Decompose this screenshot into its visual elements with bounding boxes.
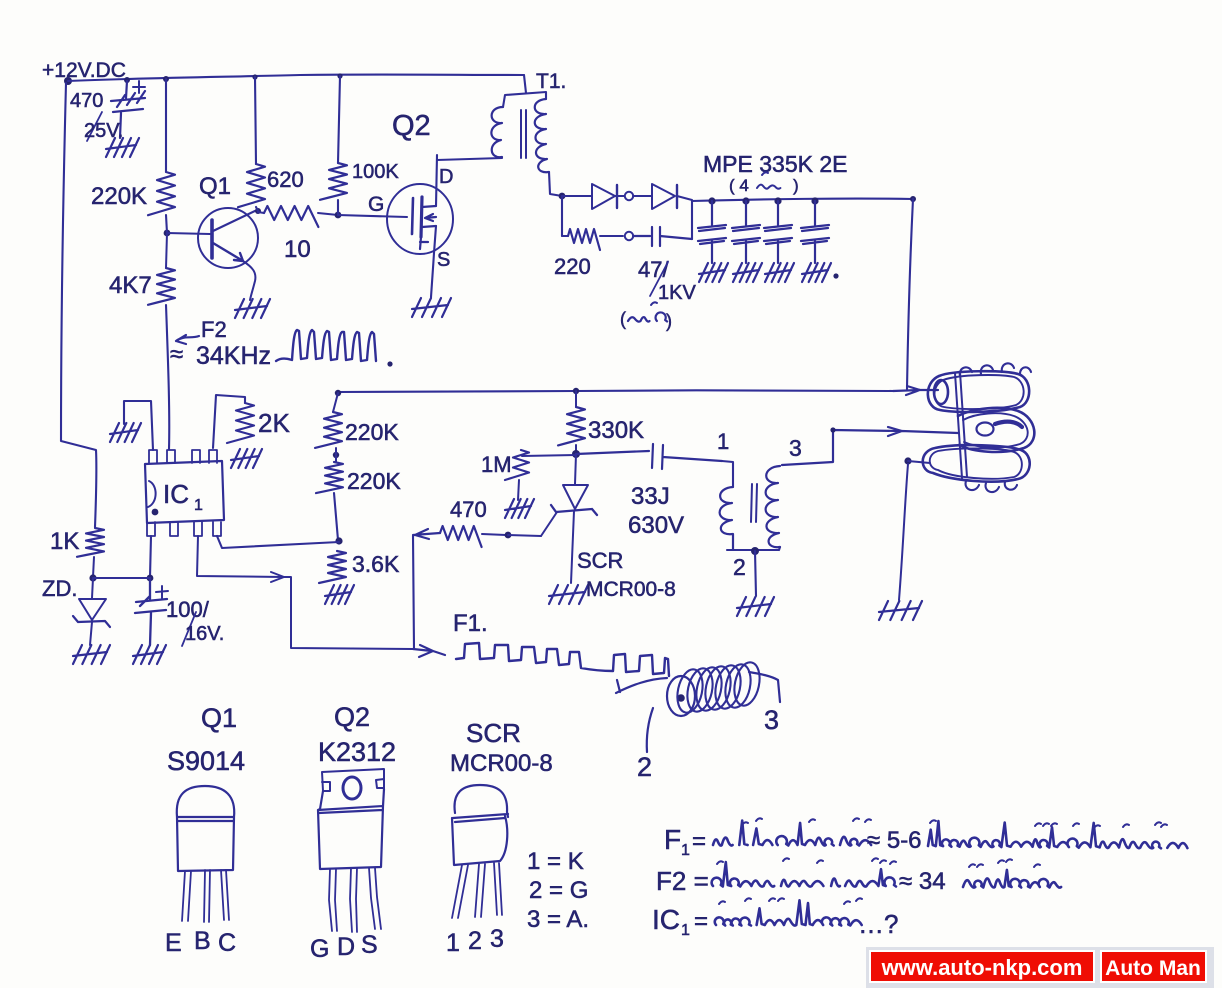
svg-text:330K: 330K — [588, 417, 644, 444]
node SCR gate wire — [505, 532, 512, 539]
transformer T1 primary winding — [491, 107, 503, 157]
package Q1 TO-92 — [177, 786, 234, 871]
inductor toroid windings — [674, 667, 707, 715]
svg-text:D: D — [439, 166, 453, 188]
svg-text:2: 2 — [733, 554, 746, 580]
wire between 220K and node — [166, 215, 167, 233]
svg-text:( 4: ( 4 — [729, 176, 749, 195]
node Q1 base junction — [164, 230, 171, 237]
lamp tube bottom arm — [923, 445, 1030, 482]
wire Q2 gate — [338, 215, 407, 217]
wire snubber up to rail — [691, 201, 693, 239]
IC U1 pins — [147, 450, 221, 536]
banner strip — [866, 947, 1214, 988]
svg-text:SCR: SCR — [466, 718, 521, 748]
wire lamp bottom lead — [904, 457, 911, 464]
svg-text:1: 1 — [681, 842, 690, 859]
svg-text:2K: 2K — [258, 408, 290, 438]
node mid rail 330K — [573, 388, 579, 394]
node collector junction — [255, 208, 261, 214]
ground below T2 — [737, 597, 774, 616]
wire 100K to node — [337, 200, 339, 215]
wire IC1 pin4 to 2K — [213, 395, 245, 448]
package Q1 legs — [182, 870, 229, 922]
ground below C3 — [765, 263, 794, 282]
wire Q2 source — [431, 226, 436, 297]
svg-text:1: 1 — [681, 922, 690, 939]
node below IC pin1 — [147, 575, 154, 582]
svg-text:1KV: 1KV — [658, 282, 696, 304]
node 1K bottom — [89, 574, 96, 581]
svg-text:1: 1 — [446, 929, 460, 957]
svg-text:3: 3 — [490, 925, 504, 953]
waveform F2 — [276, 330, 376, 361]
wire mid rail — [338, 390, 893, 392]
wire circle to D2 — [633, 195, 652, 197]
svg-text:220K: 220K — [347, 468, 401, 494]
svg-text:2: 2 — [468, 927, 482, 955]
package SCR TO-92 — [452, 785, 508, 865]
wire IC pin8 to ground — [124, 401, 153, 450]
resistor R 100K — [320, 163, 347, 200]
banner red box url — [870, 951, 1094, 982]
svg-text:220K: 220K — [91, 183, 147, 210]
wire left supply branch down — [61, 83, 96, 527]
svg-text:MCR00-8: MCR00-8 — [586, 578, 676, 601]
ground below 1M — [505, 499, 534, 518]
svg-text:): ) — [666, 311, 672, 331]
wire T2 bottom — [727, 547, 780, 550]
lamp bottom coil loops — [966, 481, 1017, 492]
package Q2 TO-220 body — [318, 789, 384, 869]
wire snubber branch down — [561, 196, 563, 236]
transistor Q1 circle — [198, 208, 258, 268]
node HV rail corner — [910, 196, 916, 202]
wire T1 secondary down — [549, 172, 562, 196]
wire toroid lead2 — [647, 708, 653, 752]
capacitor C2 MPE bank — [742, 197, 749, 204]
svg-text:100K: 100K — [352, 161, 399, 183]
wire IC pin4b to node — [217, 536, 339, 548]
resistor R 330K — [575, 391, 577, 407]
node mid rail left — [335, 390, 341, 396]
capacitor 47/1KV — [633, 227, 692, 246]
svg-text:470: 470 — [450, 497, 487, 522]
transformer T2 secondary — [766, 466, 780, 547]
svg-text:=: = — [692, 828, 706, 855]
resistor R 3.6K — [319, 551, 346, 583]
svg-text:…?: …? — [858, 909, 898, 939]
transformer T2 primary — [720, 487, 733, 549]
capacitor 100/16V — [135, 578, 167, 645]
transformer T1 secondary winding — [535, 99, 549, 172]
transistor Q2 circle — [387, 184, 453, 254]
wire 4K7 down to IC1 pin — [166, 305, 169, 449]
ground below C-in — [106, 138, 139, 157]
resistor R 10 — [258, 212, 264, 213]
node diode branch — [559, 193, 566, 200]
wire rail to T1 — [524, 75, 526, 93]
wire node to D1 — [562, 195, 592, 197]
svg-text:SCR: SCR — [577, 548, 623, 573]
thyristor SCR — [575, 454, 576, 484]
svg-text:16V.: 16V. — [185, 623, 224, 645]
svg-text:3: 3 — [789, 435, 802, 461]
resistor R 220K — [148, 172, 175, 215]
svg-text:Auto Man: Auto Man — [1105, 957, 1201, 980]
svg-text:B: B — [194, 927, 211, 955]
wire Q1 base — [167, 233, 210, 234]
svg-text:Q1: Q1 — [201, 703, 237, 733]
svg-text:100/: 100/ — [166, 597, 210, 622]
svg-text:IC: IC — [163, 479, 189, 509]
svg-text:C: C — [218, 929, 236, 957]
svg-text:F1.: F1. — [453, 610, 488, 637]
svg-text:620: 620 — [267, 167, 304, 192]
ground below C1 — [699, 263, 728, 282]
svg-text:F: F — [664, 824, 681, 855]
resistor R 1K — [77, 528, 104, 557]
svg-text:K2312: K2312 — [318, 737, 396, 767]
svg-text:MPE 335K 2E: MPE 335K 2E — [703, 151, 847, 177]
ground below lamp — [879, 601, 922, 620]
svg-text:3: 3 — [764, 705, 779, 735]
IC U1 body — [145, 461, 224, 523]
ground below C2 — [733, 263, 762, 282]
svg-text:1: 1 — [194, 497, 203, 514]
node +12V input terminal — [64, 77, 72, 85]
capacitor C-in 470/25V — [111, 81, 145, 138]
diode D2 — [652, 184, 675, 209]
IC U1 notch — [148, 481, 156, 507]
wire 220K to 3.6K — [334, 493, 338, 540]
resistor R 620 — [238, 164, 265, 207]
ground below SCR — [549, 585, 588, 604]
svg-text:D: D — [337, 933, 355, 961]
node T2 pin2 — [751, 547, 759, 555]
svg-text:Q1: Q1 — [199, 173, 231, 200]
ground below 3.6K — [325, 585, 354, 604]
lamp holder lines — [955, 372, 967, 478]
svg-text:34KHz: 34KHz — [196, 342, 271, 370]
arrow to F1 — [413, 645, 445, 657]
ground below ZD — [73, 645, 110, 664]
wire HV rail — [692, 199, 913, 201]
capacitor 33J 630V — [576, 444, 722, 469]
zener diode ZD — [92, 578, 93, 598]
arrow into lamp top — [893, 386, 938, 395]
svg-text:≈ 34: ≈ 34 — [899, 868, 946, 895]
capacitor C4 MPE bank — [811, 197, 818, 204]
svg-text:IC: IC — [652, 904, 680, 935]
node Q2 gate junction — [335, 212, 342, 219]
svg-text:10: 10 — [284, 236, 311, 263]
transformer T1 core — [521, 110, 526, 158]
capacitor C1 MPE bank — [708, 197, 715, 204]
svg-text:3.6K: 3.6K — [352, 551, 400, 577]
svg-text:25V.: 25V. — [84, 120, 123, 142]
node 3.6K junction — [335, 537, 342, 544]
svg-text:1 = K: 1 = K — [527, 848, 584, 875]
resistor R 220K upper — [333, 393, 338, 412]
svg-text:470: 470 — [70, 90, 103, 112]
ground at IC pin8 — [110, 423, 141, 442]
resistor R 220K lower — [335, 448, 337, 462]
wire drain to T1 primary — [437, 158, 502, 160]
svg-text:T1.: T1. — [536, 70, 566, 93]
package SCR legs — [452, 863, 502, 918]
wire IC pin1 down — [150, 536, 151, 577]
transformer T1 top plate — [503, 92, 546, 107]
transformer T2 core — [751, 484, 757, 522]
svg-text:F2 =: F2 = — [656, 866, 709, 896]
ground below Q1 emitter — [235, 299, 270, 318]
ground below C4 — [802, 263, 831, 282]
node open circle between diodes — [625, 192, 633, 200]
wire T2 pin1 down — [722, 461, 733, 487]
wire node to SCR gate — [508, 535, 541, 536]
resistor R 4K7 — [166, 233, 167, 268]
wire 620 branch — [255, 77, 256, 164]
svg-text:1: 1 — [717, 429, 729, 454]
period after grounds — [833, 273, 838, 278]
svg-text:220: 220 — [554, 254, 591, 279]
svg-text:): ) — [793, 176, 799, 195]
svg-text:G: G — [310, 935, 329, 963]
ground below 100uF — [133, 645, 166, 664]
transistor Q1 symbol — [210, 220, 214, 258]
svg-text:(: ( — [620, 309, 626, 329]
wire node to node — [93, 577, 150, 579]
svg-text:Q2: Q2 — [334, 702, 370, 732]
resistor R 220 — [562, 235, 568, 237]
svg-text:Q2: Q2 — [392, 110, 431, 142]
wire lamp middle feed — [782, 427, 958, 465]
svg-text:E: E — [165, 929, 182, 957]
svg-text:1K: 1K — [50, 528, 79, 555]
resistor R 2K — [227, 403, 254, 443]
lamp tube middle bend — [958, 408, 1034, 452]
svg-text:G: G — [368, 193, 384, 216]
resistor R 470 with arrow — [413, 529, 440, 539]
svg-text:S: S — [437, 249, 450, 271]
package Q2 legs — [329, 868, 381, 932]
lamp tube top arm — [928, 371, 1029, 412]
svg-text:≈ 5-6: ≈ 5-6 — [867, 827, 922, 854]
ground below Q2 source — [412, 298, 451, 317]
wire node to 1M — [522, 455, 576, 456]
ground below 2K — [231, 449, 262, 468]
capacitor C3 MPE bank — [774, 197, 781, 204]
node between 220K — [333, 452, 339, 458]
wire 620 to node — [256, 207, 258, 211]
svg-text:S: S — [361, 931, 378, 959]
svg-text:ZD.: ZD. — [42, 576, 77, 601]
IC U1 pin1 dot — [152, 509, 159, 516]
transistor Q2 mosfet symbol — [412, 198, 413, 234]
waveform F1 — [456, 643, 669, 676]
banner red box automan — [1101, 951, 1206, 982]
package Q2 TO-220 tab — [322, 769, 384, 791]
lamp top coil loops — [960, 363, 1031, 376]
label 25V — [87, 112, 102, 141]
resistor R 1M — [505, 450, 529, 480]
wire IC pin3 F-out — [197, 536, 413, 649]
wire HV down to lamp — [907, 199, 913, 389]
svg-text:3 = A.: 3 = A. — [527, 906, 589, 933]
svg-text:≈: ≈ — [170, 341, 183, 368]
svg-text:F2: F2 — [201, 317, 227, 342]
wire toroid lead3 — [749, 672, 780, 702]
inductor toroid coil — [667, 676, 695, 716]
wire 100K branch — [338, 76, 340, 163]
svg-text:S9014: S9014 — [167, 746, 245, 776]
svg-text:1M: 1M — [481, 452, 512, 477]
svg-text:2: 2 — [637, 752, 652, 782]
wire toroid lead1 — [616, 678, 667, 693]
svg-text:33J: 33J — [631, 483, 670, 510]
wire T2 pin2 to ground — [755, 551, 756, 596]
node SCR anode — [572, 450, 580, 458]
wire Q2 drain — [436, 155, 437, 206]
wire F-out up to 470 — [413, 536, 414, 649]
svg-text:www.auto-nkp.com: www.auto-nkp.com — [881, 955, 1083, 980]
svg-text:MCR00-8: MCR00-8 — [450, 750, 553, 777]
svg-text:630V: 630V — [628, 512, 684, 539]
svg-text:=: = — [694, 908, 708, 935]
svg-text:220K: 220K — [345, 419, 399, 445]
wire 220K branch — [165, 79, 167, 172]
diode D1 — [592, 184, 615, 209]
svg-text:4K7: 4K7 — [109, 272, 152, 299]
node open circle snubber — [625, 232, 633, 240]
svg-text:2 = G: 2 = G — [529, 877, 588, 904]
wire top supply rail — [68, 75, 524, 81]
